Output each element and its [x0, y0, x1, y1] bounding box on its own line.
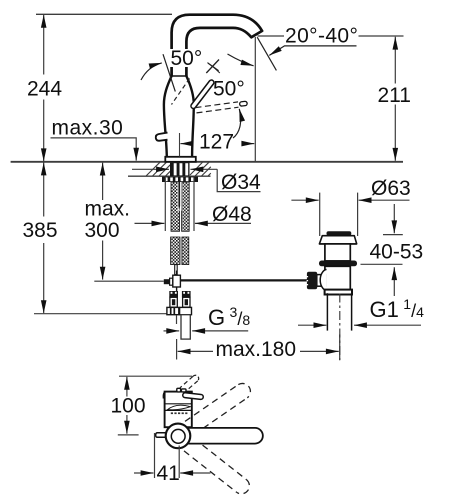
gasket — [319, 261, 357, 267]
lever handle (raised) — [193, 83, 211, 107]
wire: 100 bottom extension line — [118, 434, 139, 436]
dimension 41 — [154, 433, 156, 478]
left connector centerline — [176, 315, 178, 324]
plug cap — [327, 231, 352, 235]
deck hatch left — [146, 162, 170, 176]
small view faucet body — [165, 392, 192, 428]
swivel base outer circle — [166, 424, 191, 449]
svg-text:300: 300 — [85, 219, 120, 242]
svg-text:385: 385 — [23, 219, 58, 242]
svg-text:211: 211 — [378, 84, 411, 107]
supply pipe below right connector — [181, 315, 190, 339]
spout angle diagonal line — [257, 37, 276, 70]
thin reference line through riser — [163, 54, 175, 91]
spout bar — [184, 428, 263, 444]
pop-up rod tab — [156, 433, 167, 438]
spout tip vertical reference line — [254, 37, 256, 162]
phantom lever tip — [242, 101, 245, 107]
svg-text:244: 244 — [27, 78, 62, 101]
wire: 211 top extension line segments — [258, 35, 285, 37]
dimension 211 vertical line — [394, 37, 396, 161]
pop-up rod between hoses — [178, 182, 182, 211]
lever axis cross mark — [206, 60, 219, 74]
arc arrow left of riser — [141, 63, 162, 80]
Ø63 arrows — [291, 199, 318, 201]
tiny text marks — [171, 412, 188, 414]
braided hoses lower section — [171, 237, 180, 265]
rod coupling — [164, 279, 170, 284]
swivel base inner circle — [171, 429, 185, 443]
wire: deck / countertop top line — [11, 161, 403, 163]
pop-up rod horizontal right — [180, 279, 308, 281]
tail pipe — [326, 293, 328, 330]
dimension max.180 — [176, 339, 178, 360]
svg-text:max.: max. — [85, 197, 131, 220]
Ø48 arrows and label — [135, 222, 165, 224]
svg-text:100: 100 — [111, 395, 146, 418]
lower collar band — [325, 290, 352, 295]
dimension 127 — [180, 143, 192, 145]
threaded shank through deck — [170, 163, 190, 176]
hidden lever dashes inside body — [172, 79, 190, 105]
pop-up rod below hoses — [175, 265, 178, 275]
lower body — [325, 266, 350, 290]
G3/8 arrows — [164, 330, 180, 332]
hose end connector right — [180, 291, 192, 315]
dimension 100 vertical — [126, 377, 128, 434]
drain pop-up waste body — [307, 231, 357, 360]
phantom spout rotated down — [184, 438, 249, 494]
wire: deck underside line — [128, 175, 211, 177]
body centerline — [179, 133, 181, 157]
wire: 100 top extension line — [119, 375, 192, 377]
label 50 deg (handle) — [169, 49, 208, 67]
faucet base plate — [165, 157, 196, 162]
faucet body outline — [164, 76, 172, 158]
upper body — [325, 244, 350, 261]
flange — [319, 236, 356, 244]
ball joint dome — [320, 269, 326, 290]
dimension max.300 vertical line — [102, 163, 104, 280]
mounting nut below deck — [162, 177, 198, 182]
svg-text:50°: 50° — [213, 78, 245, 101]
leader from cross — [213, 67, 220, 74]
dimension 385 vertical line — [43, 163, 45, 314]
svg-text:41: 41 — [157, 462, 180, 485]
wire: top extension line from spout top — [36, 13, 172, 15]
svg-text:40-53: 40-53 — [370, 241, 424, 264]
tail pipe centerline — [339, 294, 341, 361]
pop-up rod horizontal left — [94, 280, 164, 282]
G1 1/4 arrows — [298, 324, 326, 326]
wire: 385 bottom extension line — [34, 313, 167, 315]
svg-text:max.180: max.180 — [216, 338, 297, 361]
arc arrow to tip line — [228, 54, 254, 66]
logo swoosh — [168, 405, 191, 410]
body/spout joint line — [171, 75, 188, 77]
Ø34 leader and label — [132, 168, 169, 170]
svg-text:50°: 50° — [171, 47, 203, 70]
arc arrow to phantom lever — [233, 109, 241, 138]
dimension 40-53 — [393, 204, 395, 233]
svg-text:Ø48: Ø48 — [212, 203, 252, 226]
lever pivot bumps — [177, 388, 181, 392]
svg-text:Ø34: Ø34 — [221, 171, 261, 194]
phantom lever horizontal (dash) — [196, 102, 239, 108]
leader of 20-40 — [269, 46, 356, 56]
svg-text:20°-40°: 20°-40° — [285, 24, 358, 47]
phantom raised lever dashes — [180, 376, 193, 388]
svg-text:Ø63: Ø63 — [371, 177, 411, 200]
Ø48 extension lines — [164, 178, 166, 232]
svg-text:127: 127 — [199, 130, 234, 153]
braided hoses upper section — [171, 182, 180, 231]
deck hatch right — [190, 162, 211, 176]
hose end connector left — [167, 291, 179, 315]
drain: Ø63 extension lines — [319, 193, 321, 236]
phantom spout rotated up — [185, 383, 250, 434]
knurled knob — [307, 272, 317, 289]
pop-up knob on body left — [156, 133, 168, 141]
svg-text:max.30: max.30 — [52, 117, 124, 140]
small view lever — [185, 395, 201, 397]
knob neck — [317, 275, 326, 287]
spout outline — [172, 15, 263, 76]
dimension 244 vertical line — [43, 15, 45, 162]
